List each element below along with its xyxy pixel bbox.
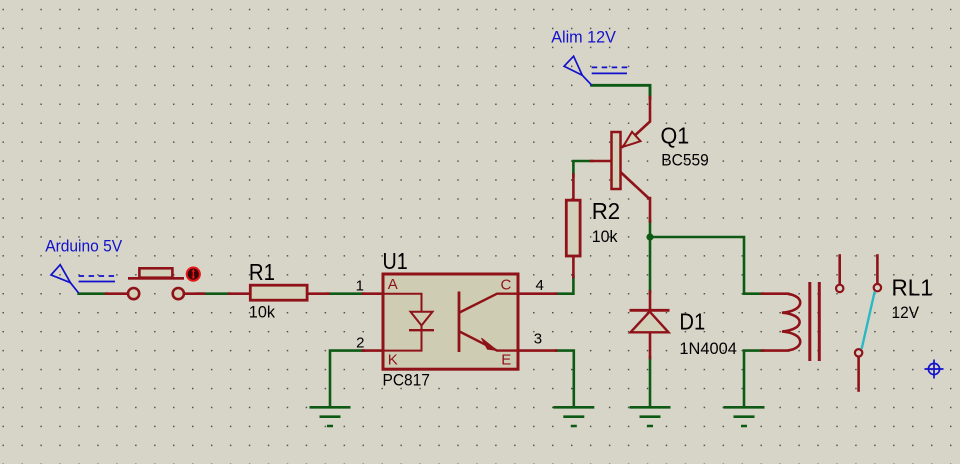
resistor R1 pins xyxy=(229,292,250,295)
svg-text:Arduino 5V: Arduino 5V xyxy=(45,237,123,256)
svg-text:A: A xyxy=(388,276,398,293)
svg-text:K: K xyxy=(388,351,398,368)
ground (U1 pin3) xyxy=(553,407,594,426)
node marker crosshair xyxy=(925,360,944,379)
svg-text:12V: 12V xyxy=(892,303,920,322)
terminal Alim 12V xyxy=(564,56,628,85)
wire junction to relay coil top xyxy=(650,237,744,294)
wire R1 to U1 pin1 xyxy=(327,292,364,295)
wire U1 pin3 to ground xyxy=(556,351,574,407)
relay coil pins xyxy=(762,292,788,295)
wire relay coil bottom to ground xyxy=(744,351,763,407)
ground (U1 pin2) xyxy=(310,407,351,426)
diode D1 xyxy=(630,310,670,332)
svg-text:2: 2 xyxy=(356,334,364,351)
U1 pin stubs xyxy=(363,292,382,295)
wire Q1 collector down xyxy=(649,221,652,293)
terminal Arduino 5V xyxy=(51,265,116,293)
svg-text:Alim 12V: Alim 12V xyxy=(551,27,616,46)
resistor R2 xyxy=(566,200,580,256)
resistor R1 xyxy=(250,285,307,300)
transistor Q1 base stub xyxy=(591,160,612,163)
wire main input xyxy=(79,292,107,295)
svg-text:R1: R1 xyxy=(249,259,275,285)
wire Alim 12V to Q1 emitter xyxy=(592,85,650,98)
relay switch arm xyxy=(862,292,875,350)
wire U1 pin4 to R2 xyxy=(556,276,574,294)
wire red stub terminal to button xyxy=(106,292,127,295)
U1 internal phototransistor xyxy=(459,292,517,353)
svg-text:D1: D1 xyxy=(679,309,705,335)
svg-text:10k: 10k xyxy=(592,227,618,246)
svg-text:R2: R2 xyxy=(592,198,620,224)
svg-text:4: 4 xyxy=(536,277,544,294)
svg-text:U1: U1 xyxy=(383,248,408,274)
svg-text:3: 3 xyxy=(534,331,542,348)
ground (relay) xyxy=(724,407,765,426)
wire D1 to ground xyxy=(649,357,652,407)
ground (D1) xyxy=(630,407,671,426)
U1 internal LED xyxy=(384,294,434,351)
transistor Q1 xyxy=(612,132,641,189)
node junction dot xyxy=(646,233,653,240)
relay RL1 coil xyxy=(782,294,800,351)
relay core bars xyxy=(808,282,811,361)
svg-text:10k: 10k xyxy=(249,303,276,322)
transistor Q1 collector wire xyxy=(621,173,650,222)
transistor Q1 emitter wire xyxy=(623,97,651,147)
svg-text:Q1: Q1 xyxy=(661,122,690,148)
svg-text:BC559: BC559 xyxy=(661,150,709,169)
resistor R2 pins xyxy=(572,175,575,200)
svg-text:C: C xyxy=(500,276,511,293)
diode D1 pins xyxy=(649,292,652,311)
button actuator xyxy=(187,268,200,281)
wire button to R1 xyxy=(197,292,230,295)
relay contact circles xyxy=(836,285,843,292)
svg-text:PC817: PC817 xyxy=(383,370,430,389)
svg-text:1: 1 xyxy=(356,278,364,295)
wire relay coil top stub xyxy=(744,292,763,295)
wire red stub button right xyxy=(184,292,204,295)
wire R2 top to Q1 base xyxy=(573,161,592,176)
relay contact stubs xyxy=(838,256,841,285)
wire U1 pin2 to ground xyxy=(330,351,364,407)
push button xyxy=(128,268,200,300)
svg-text:E: E xyxy=(501,352,511,369)
svg-text:1N4004: 1N4004 xyxy=(679,339,737,358)
svg-text:RL1: RL1 xyxy=(892,274,933,300)
op-amp U1 optocoupler box xyxy=(383,274,518,369)
